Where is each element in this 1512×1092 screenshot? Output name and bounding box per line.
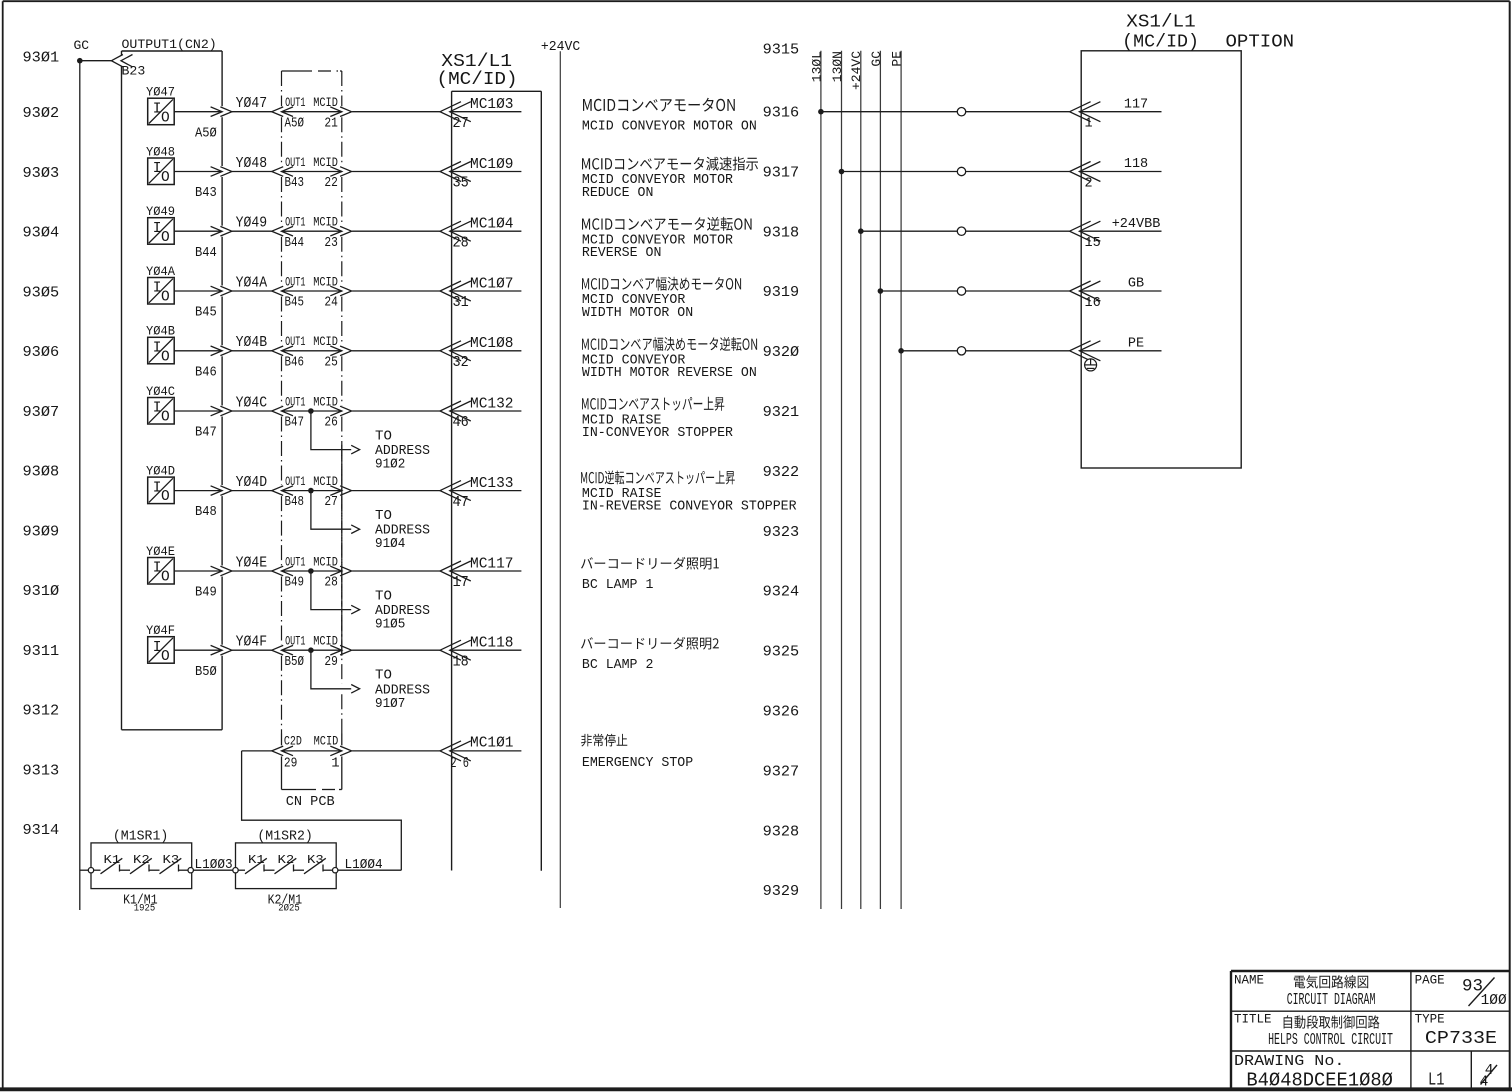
svg-text:B47: B47 xyxy=(285,415,305,431)
wire Y049 to OUT1 connector xyxy=(232,230,272,232)
relay output Y04F I/O symbol xyxy=(146,624,175,665)
connector XS1/L1 pin 17 arrows xyxy=(440,561,471,581)
pin line 117 xyxy=(1081,111,1161,113)
connector MCID pin 25 arrows xyxy=(330,346,351,356)
signal description MCIDコンベア幅決めモータON xyxy=(582,277,741,321)
svg-text:MC1Ø7: MC1Ø7 xyxy=(470,276,514,292)
right line-number column 9315-9329 xyxy=(763,42,800,901)
wire Y04A to OUT1 connector xyxy=(232,290,272,292)
svg-text:TO: TO xyxy=(375,429,392,445)
wire Y04E to OUT1 connector xyxy=(232,570,272,572)
svg-text:9326: 9326 xyxy=(763,704,800,721)
connector MCID pin 27 arrows xyxy=(330,486,351,496)
svg-text:MC133: MC133 xyxy=(470,476,514,492)
connector OUT1 pin A50 arrows xyxy=(272,107,293,117)
connector MCID pin 29 arrows xyxy=(330,645,351,655)
wire +24VC to terminal xyxy=(861,230,958,232)
connector C2D pin 29 arrows xyxy=(272,746,293,756)
svg-text:YØ4A: YØ4A xyxy=(236,275,268,291)
pin number B47 / 26 xyxy=(285,415,338,431)
svg-text:MCID: MCID xyxy=(313,554,338,569)
svg-text:B49: B49 xyxy=(285,575,305,591)
svg-text:(M1SR1): (M1SR1) xyxy=(113,829,168,844)
svg-text:B47: B47 xyxy=(195,425,217,441)
connector MCID pin 24 arrows xyxy=(330,286,351,296)
wire MCID 28 to XS1/L1 xyxy=(352,570,440,572)
wire branch to address 9104 xyxy=(311,491,351,530)
wire GC to terminal xyxy=(880,290,957,292)
wire Y048 to OUTPUT1 edge xyxy=(174,171,221,173)
terminal circle xyxy=(957,167,965,175)
connector OPTION pin arrows xyxy=(1070,221,1101,241)
svg-text:29: 29 xyxy=(324,654,338,670)
svg-text:MC117: MC117 xyxy=(470,556,514,572)
svg-text:O: O xyxy=(161,570,170,586)
svg-text:MCID: MCID xyxy=(313,334,338,349)
wire L1003 xyxy=(194,869,233,871)
svg-text:YØ4A: YØ4A xyxy=(146,265,175,279)
pin line MC118 xyxy=(452,649,522,651)
pin line MC133 xyxy=(452,490,522,492)
pin line MC104 xyxy=(452,230,522,232)
pin line MC132 xyxy=(452,410,522,412)
svg-text:WIDTH MOTOR ON: WIDTH MOTOR ON xyxy=(582,306,693,321)
connector OPTION pin arrows xyxy=(1070,162,1101,182)
GC junction dot xyxy=(77,58,83,64)
junction on +24VC bus xyxy=(858,228,864,234)
signal description 非常停止 xyxy=(581,734,693,771)
pin B48 arrow at OUTPUT1 xyxy=(211,486,232,496)
svg-text:XS1/L1: XS1/L1 xyxy=(1126,13,1195,33)
svg-text:GC: GC xyxy=(869,51,884,67)
wire Y04F to OUT1 connector xyxy=(232,649,272,651)
wire Y049 to OUTPUT1 edge xyxy=(174,230,221,232)
svg-text:O: O xyxy=(161,110,170,126)
svg-text:OUT1: OUT1 xyxy=(285,554,305,569)
pin number B49 / 28 xyxy=(285,575,338,591)
connector OPTION pin arrows xyxy=(1070,102,1101,122)
wire 130L to terminal xyxy=(821,111,957,113)
svg-text:9319: 9319 xyxy=(763,284,800,301)
svg-text:B46: B46 xyxy=(195,364,217,380)
label TO ADDRESS 9105 xyxy=(375,589,430,633)
svg-text:MC118: MC118 xyxy=(470,636,514,652)
svg-text:BC LAMP 2: BC LAMP 2 xyxy=(582,658,654,673)
wire MCID 26 to XS1/L1 xyxy=(352,410,440,412)
title block NAME cell xyxy=(1234,973,1375,1009)
junction on 130L bus xyxy=(818,109,824,115)
svg-text:B23: B23 xyxy=(122,64,146,79)
svg-text:118: 118 xyxy=(1124,157,1148,172)
pin header OUT1 MCID xyxy=(285,155,338,170)
junction node to address 9102 xyxy=(308,408,314,414)
wire inside OUT1 connector xyxy=(282,111,342,113)
svg-text:(M1SR2): (M1SR2) xyxy=(257,829,312,844)
svg-text:B45: B45 xyxy=(195,305,217,321)
connector XS1/L1 pin 35 arrows xyxy=(440,162,471,182)
connector OUT1 pin B50 arrows xyxy=(272,645,293,655)
svg-text:2 6: 2 6 xyxy=(450,755,469,772)
connector MCID pin 28 arrows xyxy=(330,566,351,576)
pin header OUT1 MCID xyxy=(285,394,338,409)
label TO ADDRESS 9102 xyxy=(375,429,430,473)
terminal circle xyxy=(957,287,965,295)
svg-text:(MC/ID): (MC/ID) xyxy=(1122,32,1199,52)
svg-text:9318: 9318 xyxy=(763,224,800,241)
wire GC rail to M1SR1 xyxy=(80,869,88,871)
wire MC101 to XS1/L1 xyxy=(352,750,440,752)
pin line +24VBB xyxy=(1081,230,1161,232)
svg-text:9315: 9315 xyxy=(763,42,800,59)
pin line MC108 xyxy=(452,350,522,352)
svg-text:TO: TO xyxy=(375,668,392,684)
svg-text:27: 27 xyxy=(324,494,338,510)
svg-text:YØ49: YØ49 xyxy=(236,216,268,232)
svg-text:K3: K3 xyxy=(163,853,180,867)
wire GC vertical rail xyxy=(79,61,81,910)
svg-text:CN PCB: CN PCB xyxy=(286,794,335,810)
pin header OUT1 MCID xyxy=(285,634,338,649)
connector OUT1 pin B49 arrows xyxy=(272,566,293,576)
svg-text:28: 28 xyxy=(453,234,469,251)
svg-text:WIDTH MOTOR REVERSE ON: WIDTH MOTOR REVERSE ON xyxy=(582,366,757,381)
svg-text:K2: K2 xyxy=(278,853,295,867)
svg-text:MC132: MC132 xyxy=(470,396,514,412)
signal description バーコードリーダ照明1 xyxy=(581,557,719,593)
svg-text:YØ4C: YØ4C xyxy=(236,395,268,411)
pin number B46 / 25 xyxy=(285,354,338,370)
svg-text:91Ø2: 91Ø2 xyxy=(375,457,405,473)
junction on GC bus xyxy=(878,288,884,294)
svg-text:91Ø4: 91Ø4 xyxy=(375,536,405,552)
relay output Y047 I/O symbol xyxy=(146,86,175,127)
svg-text:MCID CONVEYOR MOTOR ON: MCID CONVEYOR MOTOR ON xyxy=(582,119,757,134)
wire branch to address 9105 xyxy=(311,571,351,610)
svg-text:932Ø: 932Ø xyxy=(763,344,800,361)
terminal circle xyxy=(957,108,965,116)
junction on PE bus xyxy=(898,348,904,354)
terminal circle right M1SR2 xyxy=(333,868,338,873)
wire MCID 24 to XS1/L1 xyxy=(352,290,440,292)
svg-text:26: 26 xyxy=(324,415,338,431)
connector OUT1 pin B48 arrows xyxy=(272,486,293,496)
svg-text:GC: GC xyxy=(74,38,90,53)
pin line MC107 xyxy=(452,290,522,292)
wire Y04D to OUTPUT1 edge xyxy=(174,490,221,492)
pin number B45 / 24 xyxy=(285,295,338,311)
pin line GB xyxy=(1081,290,1161,292)
svg-text:22: 22 xyxy=(324,175,338,191)
signal description MCIDコンベア幅決めモータ逆転ON xyxy=(582,337,757,381)
wire terminal to XS1/L1 OPTION xyxy=(966,171,1070,173)
connector OUTPUT1(CN2) box xyxy=(122,51,223,730)
pin number B43 / 22 xyxy=(285,175,338,191)
svg-text:93Ø7: 93Ø7 xyxy=(23,404,60,421)
wire Y04F to OUTPUT1 edge xyxy=(174,649,221,651)
svg-text:93Ø1: 93Ø1 xyxy=(23,50,60,67)
terminal circle left M1SR2 xyxy=(233,868,238,873)
arrow to address xyxy=(351,685,359,694)
svg-text:B45: B45 xyxy=(285,295,305,311)
svg-text:2Ø25: 2Ø25 xyxy=(278,903,299,915)
wire Y04C to OUTPUT1 edge xyxy=(174,410,221,412)
svg-text:MCID: MCID xyxy=(313,394,338,409)
pin number A50 / 21 xyxy=(285,115,338,131)
svg-text:9314: 9314 xyxy=(23,822,60,839)
svg-text:16: 16 xyxy=(1085,296,1101,311)
svg-text:O: O xyxy=(161,489,170,505)
svg-text:46: 46 xyxy=(453,414,469,431)
svg-text:OUT1: OUT1 xyxy=(285,215,305,230)
wire MCID 22 to XS1/L1 xyxy=(352,171,440,173)
svg-text:15: 15 xyxy=(1085,236,1101,251)
arrow to address xyxy=(351,605,359,614)
svg-text:YØ48: YØ48 xyxy=(146,145,175,159)
wire inside OUT1 connector xyxy=(282,350,342,352)
connector OPTION pin arrows xyxy=(1070,281,1101,301)
svg-text:O: O xyxy=(161,230,170,246)
pin header OUT1 MCID xyxy=(285,215,338,230)
svg-text:A5Ø: A5Ø xyxy=(195,125,217,141)
svg-text:CIRCUIT DIAGRAM: CIRCUIT DIAGRAM xyxy=(1287,990,1376,1009)
svg-text:PE: PE xyxy=(1128,337,1144,352)
contact K2 of M1SR2 xyxy=(275,853,297,874)
wire MCID 27 to XS1/L1 xyxy=(352,490,440,492)
svg-text:C2D: C2D xyxy=(284,734,302,749)
svg-text:MC1Ø1: MC1Ø1 xyxy=(470,736,514,752)
svg-text:9327: 9327 xyxy=(763,763,800,780)
svg-text:XS1/L1: XS1/L1 xyxy=(441,52,512,72)
pin header OUT1 MCID xyxy=(285,274,338,289)
title block PAGE cell xyxy=(1415,973,1507,1009)
connector XS1/L1 pin 28 arrows xyxy=(440,221,471,241)
connector XS1/L1 (MC/ID) OPTION title xyxy=(1122,13,1294,53)
svg-text:REVERSE ON: REVERSE ON xyxy=(582,246,662,261)
title block frame xyxy=(1231,971,1510,1089)
svg-text:+24VBB: +24VBB xyxy=(1112,217,1161,232)
svg-text:B46: B46 xyxy=(285,354,305,370)
svg-text:1ØØ: 1ØØ xyxy=(1481,993,1507,1009)
signal description MCIDコンベアモータ減速指示 xyxy=(582,157,758,201)
svg-text:MC1Ø4: MC1Ø4 xyxy=(470,217,514,233)
svg-text:YØ4E: YØ4E xyxy=(146,545,175,559)
svg-text:9321: 9321 xyxy=(763,404,800,421)
svg-text:YØ47: YØ47 xyxy=(146,86,175,100)
svg-text:CP733E: CP733E xyxy=(1425,1029,1497,1049)
svg-text:NAME: NAME xyxy=(1234,973,1264,987)
wire MCID 29 to XS1/L1 xyxy=(352,649,440,651)
svg-text:YØ4D: YØ4D xyxy=(146,464,175,478)
svg-text:GB: GB xyxy=(1128,277,1144,292)
connector XS1/L1 pin 47 arrows xyxy=(440,481,471,501)
svg-text:93Ø3: 93Ø3 xyxy=(23,165,60,182)
signal description MCIDコンベアストッパー上昇 xyxy=(582,397,733,441)
pin header C2D MCID xyxy=(284,734,339,749)
pin number B44 / 23 xyxy=(285,235,338,251)
svg-text:B49: B49 xyxy=(195,585,217,601)
wire Y047 to OUTPUT1 edge xyxy=(174,111,221,113)
svg-text:28: 28 xyxy=(324,575,338,591)
connector XS1/L1 pin 18 arrows xyxy=(440,640,471,660)
svg-text:91Ø7: 91Ø7 xyxy=(375,696,405,712)
svg-text:YØ48: YØ48 xyxy=(236,156,268,172)
pin B50 arrow at OUTPUT1 xyxy=(211,645,232,655)
connector OUT1 pin B44 arrows xyxy=(272,226,293,236)
relay output Y049 I/O symbol xyxy=(146,205,175,246)
svg-text:17: 17 xyxy=(453,574,469,591)
pin line MC101 xyxy=(452,750,522,752)
svg-text:O: O xyxy=(161,410,170,426)
svg-text:9312: 9312 xyxy=(23,703,60,720)
wire contacts M1SR2 xyxy=(238,869,332,871)
wire Y04E to OUTPUT1 edge xyxy=(174,570,221,572)
svg-text:9322: 9322 xyxy=(763,464,800,481)
contact K1 of M1SR2 xyxy=(245,853,267,874)
wire MCID 25 to XS1/L1 xyxy=(352,350,440,352)
svg-text:OPTION: OPTION xyxy=(1226,32,1295,52)
title block TITLE cell xyxy=(1234,1013,1393,1050)
svg-text:93Ø9: 93Ø9 xyxy=(23,523,60,540)
svg-text:MCID: MCID xyxy=(313,474,338,489)
pin number B50 / 29 xyxy=(285,654,338,670)
relay output Y04D I/O symbol xyxy=(146,464,175,505)
label TO ADDRESS 9104 xyxy=(375,508,430,552)
svg-text:YØ4F: YØ4F xyxy=(236,635,268,651)
svg-text:PAGE: PAGE xyxy=(1415,973,1445,987)
signal description MCID逆転コンベアストッパー上昇 xyxy=(581,471,797,515)
bus rails 130L 130N +24VC GC PE xyxy=(809,51,904,909)
svg-text:MCID: MCID xyxy=(313,155,338,170)
wire Y04D to OUT1 connector xyxy=(232,490,272,492)
svg-text:1: 1 xyxy=(1085,117,1093,132)
relay output Y04A I/O symbol xyxy=(146,265,175,306)
wire Y04A to OUTPUT1 edge xyxy=(174,290,221,292)
svg-text:OUT1: OUT1 xyxy=(285,274,305,289)
arrow to address xyxy=(351,445,359,454)
relay M1SR2 box xyxy=(236,829,337,888)
terminal circle xyxy=(957,227,965,235)
svg-text:TYPE: TYPE xyxy=(1415,1013,1445,1027)
connector XS1/L1 pin 27 arrows xyxy=(440,102,471,122)
svg-text:93Ø2: 93Ø2 xyxy=(23,105,60,122)
svg-text:YØ49: YØ49 xyxy=(146,205,175,219)
svg-text:B5Ø: B5Ø xyxy=(285,654,305,670)
svg-text:9323: 9323 xyxy=(763,524,800,541)
svg-text:MC1Ø8: MC1Ø8 xyxy=(470,336,514,352)
wire Y047 to OUT1 connector xyxy=(232,111,272,113)
svg-text:K3: K3 xyxy=(307,853,324,867)
title block DRAWING cell xyxy=(1234,1053,1393,1092)
svg-text:24: 24 xyxy=(324,295,338,311)
signal description MCIDコンベアモータ逆転ON xyxy=(582,217,752,261)
connector XS1/L1 pin 46 arrows xyxy=(440,401,471,421)
connector XS1/L1 pin 32 arrows xyxy=(440,341,471,361)
svg-text:OUT1: OUT1 xyxy=(285,394,305,409)
relay output Y04C I/O symbol xyxy=(146,385,175,426)
contact K3 of M1SR1 xyxy=(160,853,182,874)
svg-text:MCID: MCID xyxy=(313,274,338,289)
svg-text:OUTPUT1(CN2): OUTPUT1(CN2) xyxy=(122,37,217,52)
svg-text:K1: K1 xyxy=(104,853,121,867)
connector OUT1 pin B43 arrows xyxy=(272,167,293,177)
svg-text:23: 23 xyxy=(324,235,338,251)
svg-text:35: 35 xyxy=(453,175,469,192)
signal description MCIDコンベアモータON xyxy=(582,98,757,135)
pin B46 arrow at OUTPUT1 xyxy=(211,346,232,356)
svg-text:MCID: MCID xyxy=(313,95,338,110)
coil reference K2/M1 xyxy=(268,893,303,914)
connector XS1/L1 OPTION box xyxy=(1081,51,1241,468)
wire MCID 21 to XS1/L1 xyxy=(352,111,440,113)
wire terminal to XS1/L1 OPTION xyxy=(966,290,1070,292)
wire branch to address 9102 xyxy=(311,411,351,450)
wire inside OUT1 connector xyxy=(282,490,342,492)
junction on 130N bus xyxy=(839,169,845,175)
connector XS1/L1 pin 26 arrows xyxy=(440,741,471,761)
svg-text:REDUCE ON: REDUCE ON xyxy=(582,186,654,201)
svg-text:9313: 9313 xyxy=(23,762,60,779)
svg-text:YØ4C: YØ4C xyxy=(146,385,175,399)
svg-text:O: O xyxy=(161,290,170,306)
svg-text:K1: K1 xyxy=(248,853,265,867)
svg-text:YØ4F: YØ4F xyxy=(146,624,175,638)
wire Y048 to OUT1 connector xyxy=(232,171,272,173)
svg-text:27: 27 xyxy=(453,115,469,132)
svg-text:MCID: MCID xyxy=(313,634,338,649)
pin B44 arrow at OUTPUT1 xyxy=(211,226,232,236)
svg-text:(MC/ID): (MC/ID) xyxy=(437,70,518,90)
svg-text:YØ47: YØ47 xyxy=(236,96,268,112)
wire MCID 23 to XS1/L1 xyxy=(352,230,440,232)
wire contacts M1SR1 xyxy=(94,869,188,871)
svg-text:25: 25 xyxy=(324,354,338,370)
svg-text:YØ4B: YØ4B xyxy=(236,335,268,351)
svg-text:YØ4D: YØ4D xyxy=(236,475,268,491)
junction node to address 9104 xyxy=(308,488,314,494)
pin header OUT1 MCID xyxy=(285,95,338,110)
coil reference K1/M1 xyxy=(123,893,158,914)
connector XS1/L1 pin 31 arrows xyxy=(440,281,471,301)
svg-text:OUT1: OUT1 xyxy=(285,474,305,489)
wire C2D row xyxy=(242,750,272,752)
wire inside OUT1 connector xyxy=(282,410,342,412)
connector OUT1 pin B46 arrows xyxy=(272,346,293,356)
svg-text:B43: B43 xyxy=(195,185,217,201)
wire terminal to XS1/L1 OPTION xyxy=(966,230,1070,232)
title block TYPE cell xyxy=(1415,1013,1498,1050)
svg-text:9329: 9329 xyxy=(763,883,800,900)
svg-text:1: 1 xyxy=(331,756,339,772)
svg-text:O: O xyxy=(161,349,170,365)
svg-text:B44: B44 xyxy=(195,245,217,261)
svg-text:B48: B48 xyxy=(195,504,217,520)
svg-text:4: 4 xyxy=(1480,1075,1489,1091)
signal description バーコードリーダ照明2 xyxy=(581,637,719,673)
relay output Y04E I/O symbol xyxy=(146,545,175,586)
svg-text:21: 21 xyxy=(324,115,338,131)
pin line MC103 xyxy=(452,111,522,113)
svg-text:47: 47 xyxy=(453,494,469,511)
wire Y04B to OUTPUT1 edge xyxy=(174,350,221,352)
contact K3 of M1SR2 xyxy=(304,853,326,874)
wire from CN PCB C2D down to M1SR2 xyxy=(242,751,402,870)
connector XS1/L1 (MC/ID) title xyxy=(437,52,518,90)
svg-text:MC1Ø3: MC1Ø3 xyxy=(470,97,514,113)
wire +24VC rail xyxy=(559,51,561,908)
terminal circle xyxy=(957,347,965,355)
contact K2 of M1SR1 xyxy=(130,853,152,874)
wire Y04C to OUT1 connector xyxy=(232,410,272,412)
